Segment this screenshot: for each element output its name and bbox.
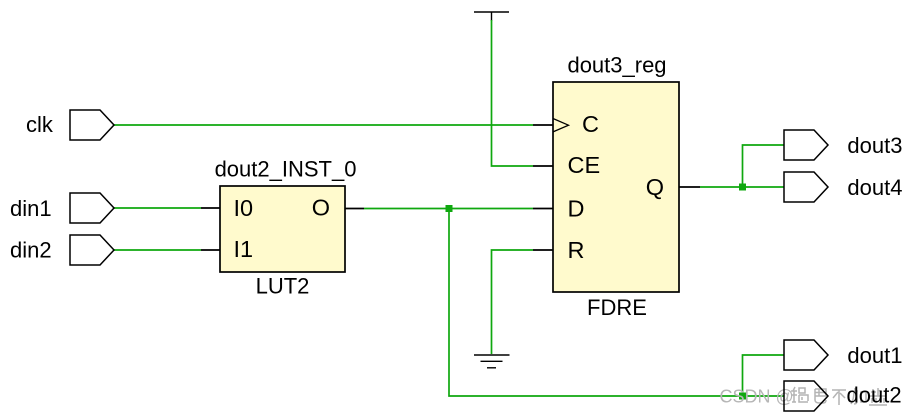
pin stub O — [344, 208, 364, 210]
svg-text:dout3: dout3 — [847, 133, 902, 158]
flip-flop U dout3_reg (FDRE) body — [553, 82, 679, 292]
power VCC symbol — [474, 12, 509, 21]
svg-text:I1: I1 — [234, 236, 254, 262]
junction node on net dout2 at bottom — [739, 393, 746, 400]
input port clk — [70, 110, 114, 140]
LUT U dout2_INST_0 (LUT2) body — [220, 186, 345, 272]
pin stub I0 — [201, 207, 221, 209]
svg-text:CE: CE — [568, 152, 601, 178]
wire branch up to dout3 port — [743, 145, 784, 187]
watermark glyph yan — [869, 388, 887, 405]
svg-text:FDRE: FDRE — [587, 295, 647, 320]
svg-text:R: R — [568, 237, 585, 263]
watermark glyph jia — [851, 388, 866, 404]
svg-text:clk: clk — [26, 112, 54, 137]
wire net din1: din1 port to I0 — [114, 207, 201, 209]
output port dout1 — [784, 340, 828, 370]
junction node on net dout2_OBUF at D — [446, 205, 453, 212]
svg-text:dout2_INST_0: dout2_INST_0 — [215, 157, 357, 182]
pin stub D — [533, 208, 553, 210]
watermark glyph guo — [791, 387, 808, 402]
ground symbol — [474, 355, 510, 368]
svg-text:dout2: dout2 — [847, 383, 902, 408]
input port din2 — [70, 235, 114, 265]
pin stub I1 — [201, 249, 221, 251]
wire net clk: clk port to C pin — [114, 124, 533, 126]
output port dout2 — [784, 381, 828, 411]
wire net din2: din2 port to I1 — [114, 249, 201, 251]
watermark glyphs — [791, 387, 887, 405]
svg-text:C: C — [582, 111, 599, 137]
wire net GND: R pin to ground — [492, 250, 534, 354]
clock triangle at pin C — [553, 119, 569, 132]
svg-text:dout4: dout4 — [847, 175, 902, 200]
pin stub CE — [533, 165, 553, 167]
wire net Q: Q pin to dout4 port — [700, 186, 784, 188]
svg-text:CSDN @: CSDN @ — [720, 387, 794, 407]
wire net VCC: power symbol down to CE pin — [492, 20, 534, 166]
pin stub C — [533, 124, 553, 126]
svg-text:I0: I0 — [234, 195, 254, 221]
svg-text:dout1: dout1 — [847, 343, 902, 368]
watermark glyph bu — [832, 390, 846, 405]
svg-text:dout3_reg: dout3_reg — [567, 53, 666, 78]
svg-text:din2: din2 — [10, 237, 52, 262]
svg-text:din1: din1 — [10, 196, 52, 221]
wire net dout2_OBUF: O pin to D pin — [364, 208, 533, 210]
output port dout3 — [784, 130, 828, 160]
wire branch from node D down and across to dout2 port — [449, 209, 784, 397]
svg-text:D: D — [568, 195, 585, 221]
wire branch up to dout1 port — [743, 355, 784, 396]
svg-text:LUT2: LUT2 — [256, 273, 310, 298]
svg-text:O: O — [312, 195, 330, 221]
output port dout4 — [784, 172, 828, 202]
pin stub R — [533, 249, 553, 251]
input port din1 — [70, 193, 114, 223]
svg-text:Q: Q — [646, 174, 664, 200]
watermark glyph ba — [815, 389, 826, 403]
pin stub Q — [679, 186, 700, 188]
junction node on net Q at dout4 — [739, 184, 746, 191]
